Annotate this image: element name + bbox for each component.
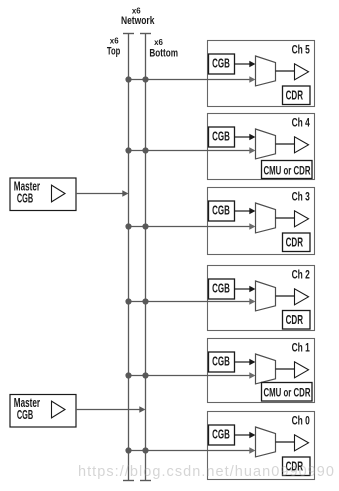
svg-text:CGB: CGB bbox=[212, 427, 230, 441]
svg-text:x6: x6 bbox=[154, 37, 163, 47]
svg-text:CGB: CGB bbox=[17, 408, 33, 422]
svg-text:Bottom: Bottom bbox=[149, 47, 178, 59]
svg-text:Ch 4: Ch 4 bbox=[292, 118, 311, 130]
svg-text:CGB: CGB bbox=[212, 203, 230, 217]
svg-text:CGB: CGB bbox=[212, 281, 230, 295]
svg-text:Ch 0: Ch 0 bbox=[292, 416, 310, 428]
svg-text:Ch 5: Ch 5 bbox=[292, 45, 311, 57]
svg-text:CDR: CDR bbox=[286, 312, 304, 327]
svg-text:Ch 1: Ch 1 bbox=[292, 343, 311, 355]
svg-text:x6: x6 bbox=[132, 6, 141, 16]
svg-text:Ch 3: Ch 3 bbox=[292, 192, 310, 204]
svg-text:Top: Top bbox=[107, 45, 121, 57]
svg-text:CGB: CGB bbox=[212, 56, 230, 70]
svg-text:CGB: CGB bbox=[212, 354, 230, 368]
svg-text:Ch 2: Ch 2 bbox=[292, 270, 310, 282]
svg-text:CDR: CDR bbox=[286, 235, 304, 250]
svg-text:x6: x6 bbox=[110, 36, 119, 46]
svg-text:CMU or CDR: CMU or CDR bbox=[264, 385, 311, 399]
svg-text:CGB: CGB bbox=[212, 129, 230, 143]
svg-text:Network: Network bbox=[121, 15, 155, 27]
svg-text:CGB: CGB bbox=[17, 191, 33, 205]
svg-text:https://blog.csdn.net/huan0990: https://blog.csdn.net/huan0990990 bbox=[78, 464, 334, 480]
svg-text:CDR: CDR bbox=[286, 88, 304, 103]
svg-text:CMU or CDR: CMU or CDR bbox=[264, 163, 311, 177]
